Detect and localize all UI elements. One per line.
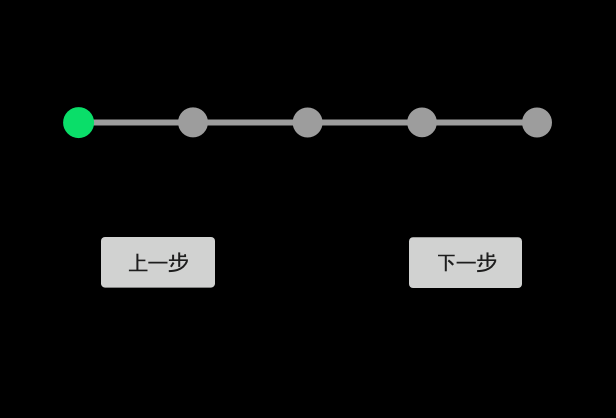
下 top horizontal bbox=[438, 255, 455, 257]
上 bottom horizontal bbox=[129, 269, 148, 271]
step dot 2 bbox=[178, 107, 208, 137]
button previous (上一步) background bbox=[101, 237, 215, 288]
上 vertical bbox=[136, 254, 138, 271]
下 right dot bbox=[448, 260, 453, 265]
上 middle horizontal bbox=[137, 259, 145, 261]
text 上一步 bbox=[129, 254, 148, 271]
stepper connector line bbox=[79, 120, 537, 126]
text 下一步 bbox=[438, 255, 455, 271]
一 (btn2) bbox=[457, 262, 476, 264]
下 vertical bbox=[445, 255, 447, 271]
步 (btn2) bbox=[477, 252, 496, 271]
button next (下一步) background bbox=[409, 237, 522, 288]
step dot 1 (active, green) bbox=[63, 107, 94, 138]
step dot 3 bbox=[293, 108, 323, 138]
步 (btn1) bbox=[169, 252, 188, 271]
step dot 4 bbox=[407, 108, 437, 138]
一 (btn1) bbox=[148, 262, 167, 264]
step dot 5 bbox=[522, 108, 552, 138]
